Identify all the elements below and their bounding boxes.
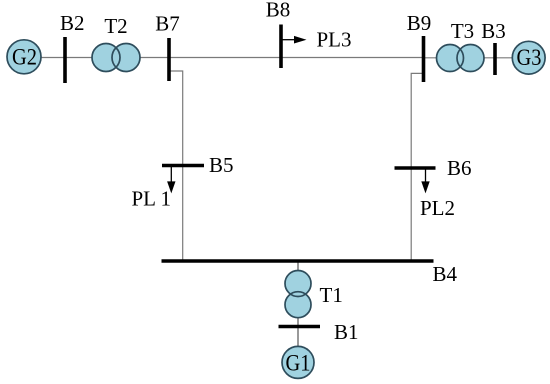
svg-text:T2: T2 bbox=[104, 14, 127, 38]
bus B6 bbox=[395, 166, 436, 170]
svg-text:G3: G3 bbox=[517, 45, 542, 70]
bus B9 bbox=[422, 36, 426, 82]
generator G3 bbox=[512, 41, 545, 74]
svg-text:B6: B6 bbox=[447, 156, 472, 180]
bus B4 bbox=[162, 259, 434, 262]
bus B1 bbox=[279, 325, 321, 329]
transformer T2 bbox=[92, 44, 140, 72]
svg-text:PL2: PL2 bbox=[420, 196, 455, 220]
wire G2 to T2 bbox=[41, 57, 93, 59]
bus B2 bbox=[63, 37, 67, 83]
bus B7 bbox=[167, 38, 171, 81]
generator G1 bbox=[282, 346, 314, 378]
bus B8 bbox=[279, 25, 283, 69]
svg-text:G1: G1 bbox=[286, 351, 311, 376]
svg-text:T3: T3 bbox=[451, 19, 474, 43]
svg-text:PL3: PL3 bbox=[317, 28, 352, 52]
svg-text:B3: B3 bbox=[481, 19, 506, 43]
wire B4 to G1 bbox=[297, 261, 299, 347]
svg-text:B9: B9 bbox=[407, 11, 432, 35]
transformer T1 bbox=[285, 271, 311, 318]
wire B9 to G3 bbox=[424, 57, 514, 59]
transformer T3 bbox=[437, 45, 485, 72]
bus B5 bbox=[162, 164, 204, 168]
load arrow PL3 bbox=[281, 36, 307, 44]
svg-text:B2: B2 bbox=[60, 11, 85, 35]
svg-text:B7: B7 bbox=[155, 12, 180, 36]
svg-text:B1: B1 bbox=[334, 320, 359, 344]
bus B3 bbox=[493, 43, 497, 75]
wire B7 stub to left feeder bbox=[169, 71, 183, 261]
svg-text:PL 1: PL 1 bbox=[132, 187, 171, 211]
svg-text:G2: G2 bbox=[12, 45, 37, 70]
generator G2 bbox=[7, 40, 41, 74]
svg-text:T1: T1 bbox=[320, 283, 343, 307]
svg-text:B8: B8 bbox=[266, 0, 291, 22]
wire T2 to B9 bbox=[139, 57, 424, 59]
wire B9 stub to right feeder bbox=[411, 73, 423, 261]
load arrow PL1 bbox=[167, 166, 175, 194]
load arrow PL2 bbox=[421, 168, 429, 193]
svg-text:B4: B4 bbox=[433, 262, 458, 286]
svg-text:B5: B5 bbox=[209, 153, 234, 177]
